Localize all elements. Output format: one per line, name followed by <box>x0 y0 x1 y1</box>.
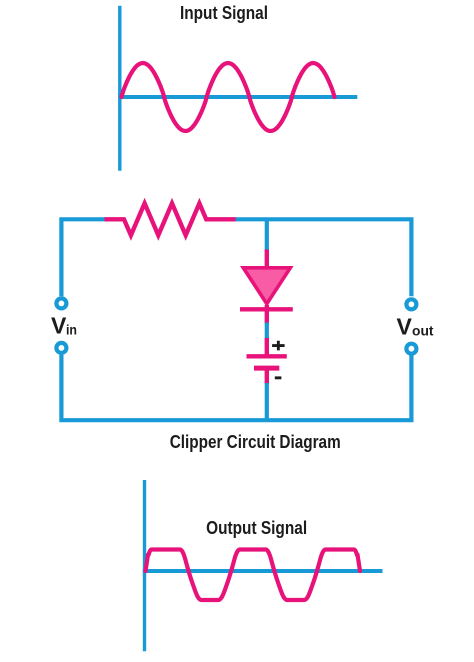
label: - (battery negative) <box>275 376 282 379</box>
terminal: Vin upper circle <box>56 298 66 308</box>
diode D1 anode lead (pink) <box>265 250 269 269</box>
diode D1 cathode bar <box>240 307 293 311</box>
input sine waveform <box>122 63 335 131</box>
diode D1 triangle <box>243 268 290 304</box>
diode D1 cathode stub <box>265 305 269 324</box>
battery B1 positive lead (pink) <box>265 338 269 356</box>
svg-text:Clipper Circuit Diagram: Clipper Circuit Diagram <box>170 432 341 452</box>
wire: top rail right segment + right rail upper <box>236 219 412 296</box>
input graph vertical axis <box>118 6 121 171</box>
output graph horizontal axis <box>143 569 383 573</box>
battery B1 negative plate (short) <box>254 366 279 371</box>
wire: bottom rail with left/right lower rails <box>61 355 411 420</box>
svg-text:V: V <box>397 314 413 340</box>
output clipped waveform <box>146 550 361 601</box>
label: Vout <box>397 314 434 340</box>
terminal: Vin lower circle <box>56 343 66 353</box>
wire: middle branch lower (blue) <box>265 383 269 420</box>
wire: middle branch between diode and battery (blue) <box>265 323 269 340</box>
svg-text:Output Signal: Output Signal <box>206 518 307 538</box>
output graph vertical axis <box>143 480 146 651</box>
wire: left rail upper segment + top-left rail <box>61 219 105 296</box>
wire: middle branch upper (blue) <box>265 219 269 251</box>
input graph horizontal axis <box>118 95 357 99</box>
svg-text:Input Signal: Input Signal <box>180 3 268 23</box>
terminal: Vout upper circle <box>406 299 416 309</box>
terminal: Vout lower circle <box>406 344 416 354</box>
battery B1 negative stub (pink) <box>265 368 269 384</box>
svg-text:in: in <box>66 322 77 338</box>
svg-text:out: out <box>412 323 434 339</box>
label: Vin <box>51 312 77 338</box>
label: + (battery positive) <box>272 341 284 351</box>
svg-text:V: V <box>51 312 67 338</box>
resistor R1 (zigzag with leads) <box>105 203 237 235</box>
battery B1 positive plate (long) <box>247 354 287 358</box>
